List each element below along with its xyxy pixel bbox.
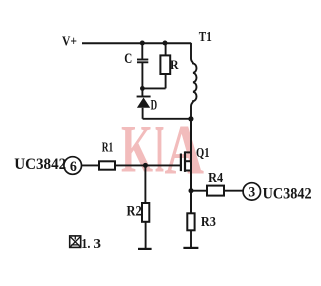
svg-text:K: K [121, 111, 153, 187]
wire C branch lower [141, 63, 143, 96]
svg-text:V+: V+ [62, 35, 77, 50]
svg-text:R3: R3 [201, 215, 216, 230]
wire C-R bottom link [142, 87, 165, 89]
label V+ [62, 35, 77, 50]
diode D [137, 97, 151, 119]
watermark KIA [121, 111, 204, 190]
svg-text:UC3842: UC3842 [14, 156, 66, 173]
wire R3 lower [190, 230, 192, 247]
node junction dot gate/R2 [143, 163, 148, 168]
wire R2 lower [145, 222, 147, 249]
svg-text:R1: R1 [102, 139, 114, 154]
resistor R3 [187, 213, 194, 230]
ground below R2 [138, 248, 152, 250]
label R1 [102, 139, 114, 154]
resistor R1 [99, 161, 115, 169]
svg-text:C: C [124, 51, 132, 67]
svg-text:3: 3 [248, 185, 255, 201]
wire pin6 to R1 [82, 164, 100, 166]
svg-text:I: I [155, 111, 165, 187]
resistor R [160, 43, 170, 88]
node junction dot C/R bottom [140, 86, 145, 91]
label T1 [199, 30, 212, 45]
svg-text:1.: 1. [81, 237, 90, 252]
pin 6 terminal circle [64, 157, 82, 175]
capacitor C plates [137, 60, 148, 63]
svg-text:UC3842: UC3842 [263, 185, 312, 202]
wire R4 to pin3 [224, 190, 243, 192]
pin 3 terminal circle [243, 183, 260, 201]
wire source to R4 [191, 190, 207, 192]
label R2 [127, 203, 142, 219]
resistor R2 [142, 203, 149, 222]
svg-text:3: 3 [93, 237, 101, 252]
svg-text:6: 6 [70, 159, 77, 175]
svg-text:R4: R4 [208, 171, 223, 186]
label R3 [201, 215, 216, 230]
node junction dot drain/winding [188, 116, 193, 121]
wire R1 to gate [115, 164, 181, 166]
label R4 [208, 171, 223, 186]
wire drain vertical [190, 119, 192, 213]
label UC3842 right [263, 185, 312, 202]
node junction dot top rail / R branch [163, 41, 168, 46]
svg-text:D: D [151, 98, 158, 114]
transformer T1 primary winding [191, 43, 197, 119]
svg-text:R2: R2 [127, 203, 142, 219]
label UC3842 left [14, 156, 66, 173]
label R [170, 57, 179, 72]
label Q1 [196, 146, 210, 161]
resistor R4 [207, 186, 224, 196]
svg-text:T1: T1 [199, 30, 212, 45]
label figure caption 图1.3 [70, 236, 101, 252]
wire top rail V+ [82, 42, 191, 44]
svg-text:R: R [170, 57, 179, 72]
wire R2 upper [144, 165, 146, 203]
wire C branch upper [141, 43, 143, 59]
ground below R3 [183, 247, 198, 249]
label D [151, 98, 158, 114]
transistor Q1 MOSFET [181, 151, 191, 172]
svg-text:Q1: Q1 [196, 146, 210, 161]
node junction dot source/R4 [189, 188, 194, 193]
label C [124, 51, 132, 67]
node junction dot top rail / C branch [140, 41, 145, 46]
wire diode to drain node [143, 118, 191, 120]
